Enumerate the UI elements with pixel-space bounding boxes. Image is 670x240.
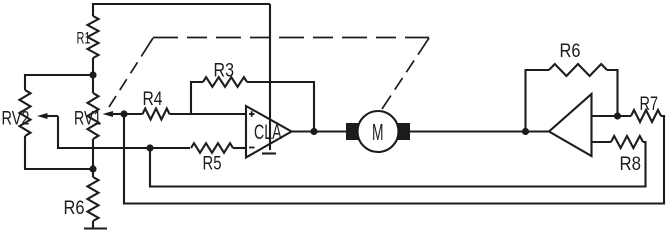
wire RV1 bottom lead	[92, 139, 94, 169]
node R5 left junction	[146, 144, 153, 151]
svg-text:R6: R6	[560, 40, 581, 62]
wire R8 feedback to R5 node	[150, 142, 646, 187]
svg-text:CLA: CLA	[254, 120, 282, 144]
wire RV2 top lead	[25, 75, 93, 90]
svg-text:R7: R7	[640, 93, 659, 115]
resistor R5	[191, 143, 233, 153]
svg-text:R5: R5	[203, 153, 222, 175]
node top-left junction	[89, 71, 96, 78]
svg-text:R6: R6	[64, 197, 85, 219]
CLA pin bar	[262, 152, 276, 154]
svg-text:RV1: RV1	[74, 108, 102, 130]
wire RV2 wiper to inverting line	[58, 116, 190, 148]
wire CLA output	[292, 130, 347, 132]
node CLA output	[310, 128, 317, 135]
dashed mechanical link: motor shaft diagonal	[382, 38, 429, 109]
wire R4 to non-inverting input	[170, 113, 247, 115]
wire R5 to inverting input	[233, 147, 246, 149]
ground	[84, 227, 107, 229]
svg-text:R3: R3	[214, 60, 235, 82]
wire upper input pin	[592, 115, 632, 117]
op-amp U2	[549, 94, 592, 156]
op-amp U1 CLA	[246, 106, 292, 158]
resistor R1	[88, 16, 99, 58]
resistor R8	[611, 136, 643, 148]
wire R3 left lead	[191, 82, 203, 114]
motor M	[346, 111, 410, 152]
dashed mechanical link: RV1 diagonal	[109, 38, 153, 107]
node R6 tap	[522, 128, 529, 135]
svg-text:R4: R4	[143, 88, 163, 110]
potentiometer RV1	[88, 93, 99, 139]
wire R3 right lead to output node	[247, 82, 314, 132]
wire R6 leads	[92, 169, 94, 177]
dashed mechanical link: top horizontal	[153, 37, 429, 39]
svg-text:R8: R8	[620, 153, 642, 175]
wiper arrow RV2	[37, 113, 58, 119]
svg-text:M: M	[372, 119, 384, 145]
wire R1 bottom lead	[92, 58, 94, 93]
resistor R6 (left)	[88, 177, 99, 221]
resistor R6 (right)	[549, 64, 607, 76]
potentiometer RV2	[20, 90, 31, 136]
resistor R3	[203, 77, 247, 87]
node bottom-left junction	[89, 165, 96, 172]
wire motor to right amp	[410, 130, 549, 132]
wire lower input pin	[592, 141, 612, 143]
resistor R7	[631, 110, 661, 122]
wiper arrow RV1	[103, 111, 125, 117]
wire RV2 bottom lead	[25, 136, 93, 169]
wire top rail from R1 to CLA power pin	[93, 4, 270, 16]
node R7 junction	[614, 112, 621, 119]
wire R6 right lead	[607, 70, 618, 116]
wire R7 feedback to RV1 wiper node	[124, 114, 664, 204]
node RV1 wiper junction	[120, 110, 127, 117]
svg-text:R1: R1	[77, 30, 91, 48]
wire RV1 wiper to R4	[124, 113, 143, 115]
wire R6 left lead (right amp)	[526, 70, 550, 132]
svg-text:RV2: RV2	[2, 108, 30, 130]
resistor R4	[143, 109, 170, 120]
wire CLA power pin	[269, 4, 271, 150]
